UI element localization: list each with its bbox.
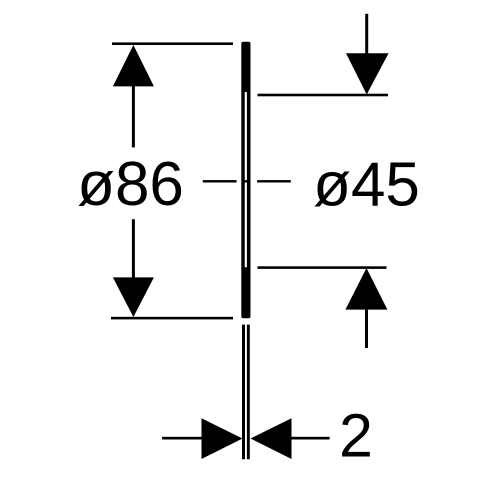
dimension shaft upper (ø45) <box>365 14 368 54</box>
dimension shaft upper (ø86) <box>132 86 135 147</box>
disc inner seam (white stripe) <box>245 92 247 267</box>
dimension arrow down (ø86) <box>113 277 154 317</box>
thickness leader left <box>162 437 202 440</box>
thickness extension line left <box>242 325 245 460</box>
centerline tick across seam <box>242 180 247 182</box>
thickness arrow left-pointing <box>251 418 292 459</box>
disc body (side view bar) <box>241 42 250 318</box>
extension line top (ø86) <box>112 42 233 45</box>
dimension arrow up (ø45) <box>345 268 387 310</box>
extension line bottom (ø45) <box>258 266 387 269</box>
thickness extension line right <box>247 325 250 460</box>
svg-text:2: 2 <box>339 401 373 469</box>
thickness arrow right-pointing <box>202 418 243 459</box>
svg-text:ø86: ø86 <box>77 150 184 219</box>
dimension shaft lower (ø45) <box>365 310 368 348</box>
centerline dash right of disc <box>257 180 291 182</box>
extension line top (ø45) <box>258 94 389 97</box>
dimension arrow down (ø45) <box>346 53 389 94</box>
thickness leader right <box>291 437 329 440</box>
centerline dash left of disc <box>203 180 237 182</box>
extension line bottom (ø86) <box>111 317 233 320</box>
dimension arrow up (ø86) <box>113 45 154 86</box>
dimension shaft lower (ø86) <box>132 219 135 277</box>
svg-text:ø45: ø45 <box>313 151 420 220</box>
